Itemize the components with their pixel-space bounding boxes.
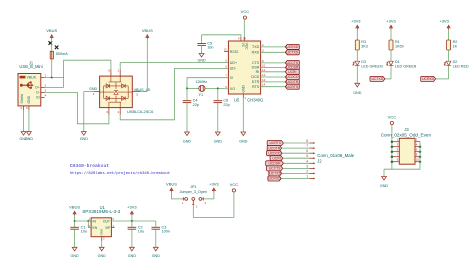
J3 pin 7 stub bbox=[392, 156, 399, 158]
wire C5 to ground bbox=[201, 45, 203, 53]
USBLC6 right pin stub bbox=[132, 91, 140, 93]
svg-text:UCDCD: UCDCD bbox=[268, 151, 281, 155]
svg-text:4: 4 bbox=[306, 159, 308, 163]
LED D1 bbox=[386, 61, 393, 65]
ground under C6 bbox=[214, 132, 223, 143]
svg-text:VCC: VCC bbox=[230, 182, 239, 187]
wire R2 to D2 bbox=[448, 50, 450, 61]
svg-text:4: 4 bbox=[45, 94, 47, 98]
svg-text:GND: GND bbox=[80, 137, 89, 141]
junction J3 left pin 9 bbox=[391, 160, 394, 163]
wire label to J2 pin 3 bbox=[283, 167, 310, 169]
svg-text:XO: XO bbox=[230, 87, 235, 91]
capacitor C2 bbox=[128, 225, 145, 233]
svg-text:TXD: TXD bbox=[252, 45, 260, 49]
J2 pin 6 stub bbox=[309, 152, 313, 154]
svg-text:UCRXD: UCRXD bbox=[268, 177, 281, 181]
USB J1 pin 2 stub bbox=[41, 87, 45, 89]
svg-text:USBLC6-2SC6: USBLC6-2SC6 bbox=[127, 109, 153, 114]
global label UCRI bbox=[285, 69, 299, 74]
svg-text:JP1: JP1 bbox=[190, 185, 196, 189]
junction OUT C2 bbox=[131, 220, 133, 222]
regulator U1 body bbox=[91, 218, 111, 237]
svg-text:VBUS_LD: VBUS_LD bbox=[134, 88, 151, 92]
ground under C3 bbox=[152, 247, 161, 258]
svg-text:GND: GND bbox=[380, 184, 389, 188]
svg-text:CH340G: CH340G bbox=[247, 98, 263, 103]
power flag +3V3 (R1) bbox=[386, 19, 396, 30]
USB J1 trident icon bbox=[20, 82, 34, 90]
svg-text:1K69: 1K69 bbox=[395, 44, 404, 48]
wire C2 to ground bbox=[131, 229, 133, 247]
wire fuse down bbox=[51, 59, 53, 78]
capacitor C4 bbox=[183, 99, 199, 107]
junction J3 left pin 1 bbox=[391, 140, 394, 143]
wire label to J2 pin 2 bbox=[282, 172, 310, 174]
wire +3V3 to R2 bbox=[448, 30, 450, 40]
junction J3 right pin 4 bbox=[419, 145, 422, 148]
wire CH340 pin 10 to label bbox=[261, 67, 286, 69]
global label UCRTS (J2) bbox=[267, 141, 283, 146]
svg-text:RXD: RXD bbox=[252, 51, 260, 55]
wire GND down bbox=[83, 92, 85, 132]
ground under C5 bbox=[197, 54, 206, 63]
ground under C2 bbox=[128, 247, 137, 258]
svg-text:USB_B_Mini: USB_B_Mini bbox=[19, 64, 42, 69]
wire USB VBUS pin bbox=[45, 77, 64, 79]
svg-text:VCC: VCC bbox=[241, 9, 250, 14]
svg-text:22p: 22p bbox=[223, 103, 229, 107]
wire CH340 pin 9 to label bbox=[261, 62, 286, 64]
svg-text:BP: BP bbox=[105, 226, 110, 230]
LED D2 bbox=[444, 61, 451, 65]
svg-text:J2: J2 bbox=[317, 159, 322, 164]
svg-text:10u: 10u bbox=[138, 229, 144, 233]
junction J3 right pin 8 bbox=[419, 155, 422, 158]
wire to C6 bbox=[217, 88, 219, 100]
global label UCDSR bbox=[285, 65, 299, 70]
svg-text:+3V3: +3V3 bbox=[209, 181, 219, 186]
wire VBUS down bbox=[74, 216, 76, 221]
svg-text:GND: GND bbox=[27, 95, 31, 103]
svg-text:14: 14 bbox=[262, 83, 266, 87]
USBLC6 bottom-left pin stub bbox=[108, 108, 110, 115]
svg-text:Y1: Y1 bbox=[199, 93, 204, 97]
svg-text:8: 8 bbox=[306, 139, 308, 143]
svg-text:VCC: VCC bbox=[388, 115, 397, 120]
junction fuse VBUS bbox=[51, 77, 53, 79]
ground under J3 bbox=[380, 177, 389, 189]
USBLC6 internal rails bbox=[100, 76, 133, 108]
wire +3V3 to R1 bbox=[390, 30, 392, 40]
wire D3 to ground bbox=[356, 65, 358, 83]
svg-text:UCRXD: UCRXD bbox=[422, 77, 435, 81]
power flag +3V3 (regulator) bbox=[127, 205, 137, 216]
svg-text:GND: GND bbox=[152, 254, 161, 258]
wire +3V3 down bbox=[131, 216, 133, 221]
svg-text:EN: EN bbox=[93, 226, 98, 230]
junction J3 left pin 3 bbox=[391, 145, 394, 148]
power flag VBUS (regulator) bbox=[69, 205, 80, 216]
svg-text:IN: IN bbox=[93, 219, 97, 223]
wire D2 to label bbox=[436, 78, 449, 80]
ground under D3 bbox=[353, 83, 362, 95]
resistor R1 bbox=[389, 40, 393, 50]
wire R1 to D1 bbox=[390, 50, 392, 61]
wire CH340 GND down bbox=[242, 98, 244, 132]
wire EN tie bbox=[88, 221, 91, 228]
svg-text:UCDTR: UCDTR bbox=[268, 146, 280, 150]
ERC marker X2 bbox=[55, 46, 59, 50]
svg-text:2: 2 bbox=[45, 84, 47, 88]
svg-text:500mA: 500mA bbox=[56, 52, 68, 56]
wire CH340 pin 13 to label bbox=[261, 81, 286, 83]
svg-text:6: 6 bbox=[306, 149, 308, 153]
svg-text:1: 1 bbox=[45, 74, 47, 78]
wire U1 OUT bbox=[111, 220, 155, 222]
J3 pin 4 stub bbox=[415, 146, 420, 148]
ground under USB pin6 bbox=[25, 132, 34, 142]
svg-text:R3: R3 bbox=[361, 40, 366, 44]
svg-text:VBUS: VBUS bbox=[142, 28, 153, 33]
wire CH340 pin 14 to label bbox=[261, 86, 286, 88]
wire USB D+ to USBLC6 pin bottom-left bbox=[45, 93, 109, 124]
svg-text:UCCTS: UCCTS bbox=[269, 167, 281, 171]
global label UCTXD (LED) bbox=[370, 76, 385, 81]
power flag +3V3 (R3) bbox=[351, 19, 361, 30]
wire D2 down bbox=[448, 65, 450, 79]
svg-text:10: 10 bbox=[416, 158, 420, 162]
CH340 V3 pin stub bbox=[240, 37, 242, 41]
wire C3 to ground bbox=[155, 229, 157, 247]
USB J1 pin 1 stub bbox=[41, 77, 45, 79]
wire CH340 pin 12 to label bbox=[261, 76, 286, 78]
svg-text:https://820labs.net/projects/c: https://820labs.net/projects/ch340-break… bbox=[70, 171, 170, 176]
svg-text:GND: GND bbox=[239, 139, 248, 143]
J3 pin 10 stub bbox=[415, 161, 420, 163]
svg-text:13: 13 bbox=[262, 78, 266, 82]
power flag +3V3 (jumper) bbox=[209, 181, 219, 192]
svg-text:1: 1 bbox=[306, 175, 308, 179]
wire to C4 bbox=[186, 88, 188, 100]
USB J1 pin 5 stub bbox=[23, 106, 25, 110]
svg-text:R2: R2 bbox=[453, 40, 458, 44]
svg-text:CH340-breakout: CH340-breakout bbox=[70, 163, 110, 169]
wire VCC to CH340 bbox=[243, 20, 245, 37]
svg-text:2: 2 bbox=[306, 169, 308, 173]
wire label to J2 pin 7 bbox=[282, 147, 310, 149]
svg-text:3K3: 3K3 bbox=[361, 44, 368, 48]
capacitor C3 bbox=[152, 225, 170, 233]
USB J1 pin 4 stub bbox=[41, 97, 45, 99]
wire to C1 bbox=[74, 221, 76, 227]
global label UCRTS bbox=[285, 84, 299, 89]
USB J1 pin 6 stub bbox=[28, 106, 30, 110]
J2 pin 4 stub bbox=[309, 162, 313, 164]
global label UCCTS (J2) bbox=[267, 166, 283, 171]
svg-text:DCD: DCD bbox=[251, 75, 259, 79]
svg-text:5: 5 bbox=[306, 154, 308, 158]
svg-text:LED GREEN: LED GREEN bbox=[361, 64, 383, 68]
svg-text:VBUS: VBUS bbox=[27, 76, 37, 80]
global label UCDSR (J2) bbox=[266, 161, 284, 166]
svg-text:U5: U5 bbox=[234, 98, 240, 103]
J2 pin 3 stub bbox=[309, 167, 313, 169]
svg-text:Conn_02x05_Odd_Even: Conn_02x05_Odd_Even bbox=[381, 132, 432, 137]
svg-text:D2: D2 bbox=[453, 60, 458, 64]
wire VBUS to USBLC6 bbox=[146, 40, 148, 92]
svg-text:VCC: VCC bbox=[244, 43, 248, 51]
J3 pin 1 stub bbox=[392, 141, 399, 143]
USBLC6 bottom-right pin stub bbox=[119, 108, 121, 115]
wire CH340 pin 3 to label bbox=[261, 51, 286, 53]
wire USB D- to USBLC6 pin top-left bbox=[64, 60, 111, 87]
svg-text:D3: D3 bbox=[361, 60, 366, 64]
svg-text:22p: 22p bbox=[193, 103, 199, 107]
junction crystal left bbox=[186, 87, 188, 89]
wire JP1 common to VCC bbox=[193, 192, 234, 217]
global label UCRXD bbox=[285, 44, 299, 49]
resistor R2 bbox=[447, 40, 451, 50]
svg-text:Shield: Shield bbox=[20, 94, 24, 104]
ground under C4 bbox=[183, 132, 192, 143]
wire label to J2 pin 4 bbox=[283, 162, 309, 164]
wire CH340 pin 2 to label bbox=[261, 46, 286, 48]
global label UCTXD bbox=[285, 50, 299, 55]
J2 pin 7 stub bbox=[309, 147, 313, 149]
svg-text:100n: 100n bbox=[162, 229, 170, 233]
svg-text:7: 7 bbox=[306, 144, 308, 148]
svg-text:R1: R1 bbox=[395, 40, 400, 44]
J3 pin 6 stub bbox=[415, 151, 420, 153]
svg-text:GND: GND bbox=[70, 254, 79, 258]
wire label to J2 pin 6 bbox=[282, 152, 309, 154]
wire VBUS to fuse bbox=[51, 40, 53, 52]
U1 BP pin stub bbox=[111, 227, 114, 229]
svg-text:10u: 10u bbox=[81, 229, 87, 233]
svg-text:GND: GND bbox=[98, 254, 107, 258]
USBLC6 diode D-d bbox=[122, 96, 126, 100]
global label UCRXD (LED) bbox=[421, 76, 436, 81]
wire to C2 bbox=[131, 221, 133, 227]
J3 pin 2 stub bbox=[415, 141, 420, 143]
svg-text:RI: RI bbox=[256, 70, 260, 74]
svg-text:VBUS: VBUS bbox=[69, 205, 80, 210]
svg-text:D-: D- bbox=[36, 91, 40, 95]
USBLC6 zener center bbox=[114, 91, 118, 95]
power symbol VCC at J3 bbox=[388, 115, 397, 125]
USBLC6 left pin stub bbox=[94, 91, 100, 93]
wire XI to crystal bbox=[187, 78, 228, 89]
wire VCC rail J3 left bbox=[391, 125, 393, 170]
wire USBLC6 VBUS pin bbox=[140, 91, 147, 93]
junction VBUS C1 bbox=[74, 220, 76, 222]
svg-text:OUT: OUT bbox=[103, 219, 110, 223]
svg-text:10n: 10n bbox=[207, 46, 213, 50]
wire J3 right rail to GND bbox=[384, 142, 420, 170]
global label UCDTR bbox=[285, 79, 299, 84]
junction J3 right pin 10 bbox=[419, 160, 422, 163]
svg-text:R232: R232 bbox=[230, 50, 239, 54]
wire label to J2 pin 5 bbox=[283, 157, 310, 159]
svg-text:11: 11 bbox=[262, 68, 265, 72]
wire crystal right to XO bbox=[205, 87, 228, 90]
svg-text:1K: 1K bbox=[453, 44, 458, 48]
wire USBLC6 GND pin bbox=[84, 91, 94, 93]
svg-text:LED GREEN: LED GREEN bbox=[395, 64, 417, 68]
wire USB shield down bbox=[28, 110, 30, 132]
wire C6 to ground bbox=[217, 103, 219, 132]
connector J3 body bbox=[399, 138, 415, 164]
svg-text:VBUS: VBUS bbox=[166, 181, 177, 186]
ground under C1 bbox=[70, 247, 79, 258]
wire USBLC6 to CH340 UD- bbox=[120, 69, 228, 120]
svg-text:ID: ID bbox=[36, 96, 40, 100]
wire down to ground J3 bbox=[383, 169, 385, 176]
J3 pin 9 stub bbox=[392, 161, 399, 163]
svg-text:LED RED: LED RED bbox=[453, 64, 469, 68]
svg-text:Conn_01x08_Male: Conn_01x08_Male bbox=[317, 153, 354, 158]
capacitor C6 bbox=[214, 99, 230, 107]
junction J3 right pin 6 bbox=[419, 150, 422, 153]
capacitor C5 bbox=[197, 42, 213, 50]
svg-text:SPX3819M5-L-3-3: SPX3819M5-L-3-3 bbox=[82, 209, 120, 214]
wire +3V3 to R3 bbox=[356, 30, 358, 40]
jumper JP1 symbol bbox=[183, 197, 203, 204]
ground under U1 bbox=[98, 247, 107, 258]
svg-text:V3: V3 bbox=[241, 43, 245, 47]
svg-text:+3V3: +3V3 bbox=[127, 205, 137, 210]
fuse F1 bbox=[50, 51, 53, 59]
svg-text:D1: D1 bbox=[395, 60, 400, 64]
svg-text:DTR: DTR bbox=[252, 80, 260, 84]
J3 pin 8 stub bbox=[415, 156, 420, 158]
capacitor C1 bbox=[70, 225, 87, 233]
svg-text:+3V3: +3V3 bbox=[351, 19, 361, 24]
svg-text:3: 3 bbox=[306, 164, 308, 168]
J2 pin 2 stub bbox=[309, 172, 313, 174]
wire D1 to label bbox=[385, 78, 391, 80]
J2 pin 5 stub bbox=[309, 157, 313, 159]
svg-text:GND: GND bbox=[183, 139, 192, 143]
junction EN tap bbox=[87, 220, 89, 222]
svg-text:GND: GND bbox=[89, 87, 98, 91]
svg-text:UCTXD: UCTXD bbox=[269, 172, 281, 176]
svg-text:CTS: CTS bbox=[252, 61, 260, 65]
svg-text:+3V3: +3V3 bbox=[439, 19, 449, 24]
wire U1 GND to ground bbox=[101, 241, 103, 248]
global label UCCTS bbox=[285, 60, 299, 65]
svg-text:GND: GND bbox=[241, 85, 245, 93]
ground under USB pin5 bbox=[19, 132, 28, 142]
svg-text:UCRTS: UCRTS bbox=[286, 85, 298, 89]
svg-text:D+: D+ bbox=[35, 86, 39, 90]
svg-text:UCRXD: UCRXD bbox=[286, 45, 299, 49]
wire to U1 IN bbox=[75, 220, 92, 222]
wire crystal left bbox=[187, 87, 199, 89]
wire V3 to C5 bbox=[202, 35, 241, 37]
svg-text:UCDSR: UCDSR bbox=[268, 162, 281, 166]
ERC marker X1 bbox=[49, 41, 53, 45]
ground under CH340 bbox=[239, 132, 248, 143]
svg-text:GND: GND bbox=[214, 139, 223, 143]
USBLC6 top-left pin stub bbox=[110, 69, 112, 76]
wire R3 to D3 bbox=[356, 50, 358, 61]
USBLC6 diode D-c bbox=[106, 96, 110, 100]
svg-text:12: 12 bbox=[262, 73, 266, 77]
svg-text:VBUS: VBUS bbox=[46, 28, 57, 33]
svg-text:UCDTR: UCDTR bbox=[286, 80, 298, 84]
svg-text:RTS: RTS bbox=[252, 85, 260, 89]
junction J3 left pin 5 bbox=[391, 150, 394, 153]
power symbol VCC top bbox=[241, 9, 250, 19]
wire D1 down bbox=[390, 65, 392, 79]
J3 pin 5 stub bbox=[392, 151, 399, 153]
wire VBUS to JP1 pin A bbox=[172, 193, 184, 199]
power flag VBUS (input) bbox=[46, 28, 57, 39]
USBLC6 diode D-b bbox=[122, 84, 126, 88]
CH340 GND pin stub bbox=[242, 94, 244, 98]
USB J1 pin 3 stub bbox=[41, 92, 45, 94]
svg-text:UD+: UD+ bbox=[230, 61, 237, 65]
svg-text:GND: GND bbox=[25, 137, 34, 141]
svg-text:GND: GND bbox=[128, 254, 137, 258]
CH340 R232 pin stub bbox=[224, 51, 228, 53]
global label UCDCD (J2) bbox=[267, 151, 283, 156]
wire USBLC6 to CH340 UD+ bbox=[120, 63, 228, 70]
wire label to J2 pin 1 bbox=[281, 178, 309, 180]
global label UCDCD bbox=[285, 75, 299, 80]
IC U2 USBLC6-2SC6 body bbox=[100, 76, 133, 108]
global label UCRXD (J2) bbox=[268, 176, 281, 181]
svg-text:+3V3: +3V3 bbox=[386, 19, 396, 24]
global label UCDTR (J2) bbox=[267, 146, 282, 151]
global label UCRI (J2) bbox=[270, 156, 283, 161]
USB J1 vbus bar bbox=[20, 76, 26, 79]
junction J3 left pin 7 bbox=[391, 155, 394, 158]
USBLC6 diode D-a bbox=[106, 84, 110, 88]
power flag VBUS (ESD) bbox=[142, 28, 153, 39]
resistor R3 bbox=[355, 40, 359, 50]
wire label to J2 pin 8 bbox=[283, 142, 309, 144]
svg-text:UCRI: UCRI bbox=[288, 70, 296, 74]
U1 GND pin stub bbox=[101, 237, 103, 241]
CH340 VCC pin stub bbox=[243, 37, 245, 41]
wire C1 to ground bbox=[74, 229, 76, 247]
svg-text:Jumper_3_Open: Jumper_3_Open bbox=[180, 190, 207, 194]
svg-text:UCCTS: UCCTS bbox=[286, 61, 298, 65]
svg-text:UCTXD: UCTXD bbox=[286, 51, 298, 55]
svg-text:GND: GND bbox=[100, 228, 104, 236]
wire USB GND down left bbox=[23, 110, 25, 132]
connector J1 USB_B_Mini body bbox=[18, 74, 41, 106]
svg-text:UCRI: UCRI bbox=[272, 156, 280, 160]
power flag VBUS (jumper) bbox=[166, 181, 177, 192]
wire C5 up bbox=[201, 35, 203, 44]
ground under USBLC6 bbox=[80, 132, 89, 142]
power flag +3V3 (R2) bbox=[439, 19, 450, 30]
svg-text:XI: XI bbox=[230, 76, 233, 80]
power symbol VCC at jumper bbox=[230, 182, 239, 192]
wire C4 to ground bbox=[186, 103, 188, 132]
svg-text:UCRTS: UCRTS bbox=[269, 141, 281, 145]
svg-text:GND: GND bbox=[197, 59, 206, 63]
J3 pin 3 stub bbox=[392, 146, 399, 148]
svg-text:GND: GND bbox=[353, 91, 362, 95]
wire +3V3 to JP1 pin B bbox=[203, 193, 214, 199]
svg-text:J3: J3 bbox=[404, 127, 409, 132]
svg-text:UCDCD: UCDCD bbox=[286, 75, 299, 79]
